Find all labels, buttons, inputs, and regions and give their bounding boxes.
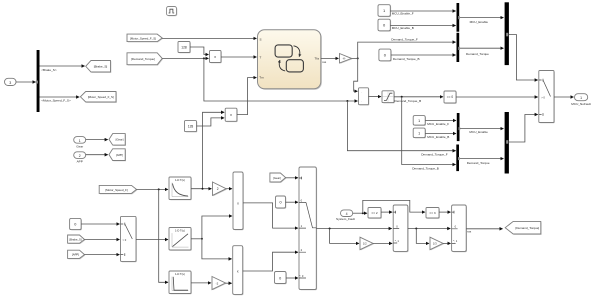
svg-text:4: 4 bbox=[346, 212, 348, 216]
svg-text:0: 0 bbox=[279, 276, 281, 280]
svg-text:x: x bbox=[237, 269, 239, 273]
svg-text:*, 1: *, 1 bbox=[453, 239, 458, 243]
svg-text:MCU_Enable_F: MCU_Enable_F bbox=[392, 12, 414, 16]
svg-text:Tm: Tm bbox=[259, 76, 264, 80]
svg-text:MCU_Enable_B: MCU_Enable_B bbox=[427, 135, 449, 139]
svg-text:System_Fault: System_Fault bbox=[336, 217, 355, 221]
svg-text:MCU_Enable: MCU_Enable bbox=[469, 130, 488, 134]
svg-text:1-D T(u): 1-D T(u) bbox=[175, 272, 185, 276]
svg-text:0: 0 bbox=[74, 223, 76, 227]
svg-text:== 3: == 3 bbox=[429, 211, 435, 215]
svg-text:-K-: -K- bbox=[343, 57, 347, 61]
svg-text:Tfa: Tfa bbox=[315, 56, 320, 60]
svg-text:MCU_NoFault: MCU_NoFault bbox=[571, 102, 591, 106]
svg-text:Demand_Torque_F: Demand_Torque_F bbox=[421, 152, 448, 156]
svg-text:Demand_Torque: Demand_Torque bbox=[466, 52, 489, 56]
svg-text:MCU_Enable: MCU_Enable bbox=[470, 20, 489, 24]
svg-text:[Motor_Speed_F]: [Motor_Speed_F] bbox=[105, 188, 128, 192]
svg-text:Demand_Torque_B: Demand_Torque_B bbox=[395, 99, 422, 103]
svg-text:[Gear]: [Gear] bbox=[116, 138, 124, 142]
svg-text:1/2: 1/2 bbox=[363, 242, 367, 246]
svg-text:[Motor_Speed_F_S]: [Motor_Speed_F_S] bbox=[88, 95, 114, 99]
svg-text:0: 0 bbox=[279, 201, 281, 205]
svg-text:x: x bbox=[237, 201, 239, 205]
svg-text:1-D T(u): 1-D T(u) bbox=[175, 228, 185, 232]
svg-text:1: 1 bbox=[79, 139, 81, 143]
svg-text:2: 2 bbox=[217, 187, 219, 191]
svg-text:1/3: 1/3 bbox=[433, 242, 437, 246]
svg-text:== 2: == 2 bbox=[371, 211, 377, 215]
svg-text:128: 128 bbox=[188, 124, 194, 128]
svg-text:*, 1: *, 1 bbox=[395, 239, 400, 243]
svg-text:1: 1 bbox=[580, 96, 582, 100]
svg-text:[APP]: [APP] bbox=[116, 153, 123, 157]
svg-text:<Brake_S>: <Brake_S> bbox=[41, 68, 57, 72]
svg-text:> 0: > 0 bbox=[541, 95, 545, 99]
svg-text:T: T bbox=[260, 56, 262, 60]
svg-text:1: 1 bbox=[418, 119, 420, 123]
svg-text:Gear: Gear bbox=[76, 144, 83, 148]
svg-text:> 0: > 0 bbox=[123, 238, 127, 242]
svg-text:[Brake_S]: [Brake_S] bbox=[69, 238, 82, 242]
svg-text:[Brake_S]: [Brake_S] bbox=[94, 65, 108, 69]
svg-text:1: 1 bbox=[418, 132, 420, 136]
svg-text:<Motor_Speed_F_S>: <Motor_Speed_F_S> bbox=[41, 98, 71, 102]
svg-text:2: 2 bbox=[79, 154, 81, 158]
svg-text:S: S bbox=[260, 38, 262, 42]
svg-text:128: 128 bbox=[181, 45, 187, 49]
svg-text:Demand_Torque: Demand_Torque bbox=[467, 161, 490, 165]
svg-text:MCU_Enable_F: MCU_Enable_F bbox=[427, 122, 449, 126]
svg-text:x: x bbox=[230, 113, 232, 117]
svg-text:-2: -2 bbox=[216, 281, 219, 285]
svg-text:[Gear]: [Gear] bbox=[273, 176, 281, 180]
svg-text:MCU_Enable_B: MCU_Enable_B bbox=[392, 26, 414, 30]
svg-text:[Demand_Torque]: [Demand_Torque] bbox=[515, 226, 539, 230]
svg-text:[Motor_Speed_F_S]: [Motor_Speed_F_S] bbox=[130, 36, 156, 40]
svg-text:[APP]: [APP] bbox=[72, 253, 79, 257]
svg-text:== 0: == 0 bbox=[447, 95, 454, 99]
svg-text:1-D T(u): 1-D T(u) bbox=[175, 178, 185, 182]
svg-text:*, 3: *, 3 bbox=[299, 274, 304, 278]
svg-text:[Demand_Torque]: [Demand_Torque] bbox=[131, 57, 155, 61]
svg-text:Demand_Torque_B: Demand_Torque_B bbox=[393, 57, 420, 61]
svg-text:x: x bbox=[214, 55, 216, 59]
svg-text:APP: APP bbox=[77, 160, 83, 164]
svg-text:Demand_Torque_B: Demand_Torque_B bbox=[412, 166, 439, 170]
svg-text:3: 3 bbox=[9, 81, 11, 85]
svg-text:Demand_Torque_F: Demand_Torque_F bbox=[391, 37, 418, 41]
